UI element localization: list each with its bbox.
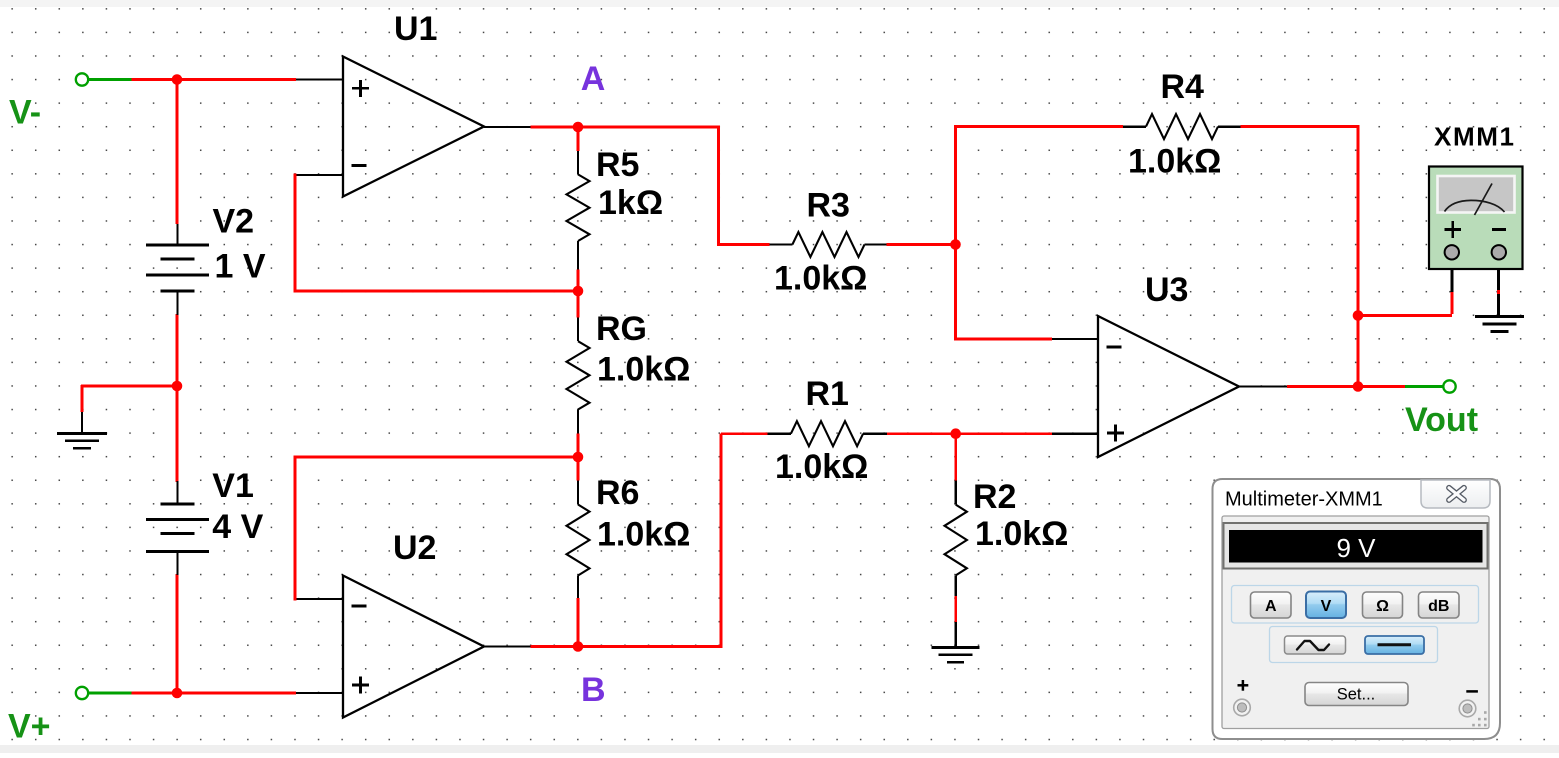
svg-text:A: A	[581, 60, 606, 98]
dialog display bezel	[1224, 523, 1488, 569]
junction V- / V2	[172, 74, 183, 85]
button AC	[1285, 636, 1346, 654]
U1 pin + stub	[296, 78, 343, 80]
svg-text:B: B	[581, 671, 606, 709]
svg-text:V-: V-	[9, 94, 41, 132]
svg-text:1.0kΩ: 1.0kΩ	[597, 516, 690, 554]
wire V- down to V2	[176, 80, 179, 225]
dialog resize grip	[1472, 711, 1486, 726]
svg-text:U1: U1	[394, 10, 437, 48]
resistor R3	[769, 232, 886, 257]
wire feedback to RG/R6 node	[295, 456, 579, 459]
dialog inner panel	[1222, 516, 1489, 729]
U2 pin - stub	[295, 598, 343, 600]
wire node to RG	[577, 290, 580, 318]
svg-text:V+: V+	[8, 708, 51, 746]
wire R4 left vertical	[954, 125, 957, 340]
wire R2 to ground	[954, 596, 957, 622]
svg-text:U3: U3	[1145, 271, 1188, 309]
junction node A	[573, 122, 584, 133]
button Set	[1305, 683, 1408, 706]
resistor R6	[567, 505, 590, 576]
wire V+ green segment	[89, 692, 132, 695]
wire to R4 left	[956, 125, 1124, 128]
ground left	[57, 434, 107, 449]
wire Vout green segment	[1405, 385, 1443, 388]
wire R5 to node	[577, 270, 580, 293]
dialog minus terminal	[1459, 700, 1476, 717]
junction RG/R6	[573, 452, 584, 463]
wire A to R5	[577, 126, 580, 151]
ground XMM1	[1475, 317, 1524, 332]
resistor R2	[945, 505, 967, 576]
svg-text:1.0kΩ: 1.0kΩ	[597, 351, 690, 389]
svg-text:9 V: 9 V	[1336, 533, 1376, 563]
svg-text:1.0kΩ: 1.0kΩ	[774, 260, 867, 298]
svg-text:Multimeter-XMM1: Multimeter-XMM1	[1225, 489, 1383, 511]
svg-text:R5: R5	[596, 146, 639, 184]
wire V- to U1 noninverting	[132, 78, 297, 81]
ground stub	[81, 412, 83, 432]
wire to R1 left	[721, 432, 768, 435]
wire to R3 left	[719, 243, 770, 246]
svg-text:Vout: Vout	[1405, 401, 1478, 439]
svg-text:V: V	[1321, 598, 1332, 615]
button Ohm	[1363, 592, 1403, 618]
wire U2 out to node B	[531, 645, 580, 648]
svg-text:R2: R2	[973, 478, 1016, 516]
dialog plus terminal label	[1238, 680, 1249, 691]
wire U1 out to node A	[531, 126, 580, 129]
svg-text:U2: U2	[393, 529, 436, 567]
op-amp U1	[343, 57, 484, 197]
dialog close button	[1421, 480, 1490, 508]
U3 output stub	[1239, 385, 1287, 387]
XMM1 minus probe red sliver	[1497, 290, 1500, 294]
junction node B	[573, 641, 584, 652]
wire R1 to node	[887, 432, 957, 435]
wire U3 out to node	[1287, 385, 1358, 388]
wire down to R3	[717, 126, 720, 246]
button DC selected	[1365, 636, 1424, 654]
junction R5/RG	[573, 286, 584, 297]
terminal V+	[76, 687, 88, 699]
svg-text:R1: R1	[806, 375, 849, 413]
R2 pin 1 stub	[955, 480, 957, 504]
wire U2 inverting feedback vertical	[294, 456, 297, 601]
U1 pin - stub	[295, 174, 343, 176]
U3 pin - stub	[1052, 338, 1098, 340]
terminal V-	[76, 73, 88, 85]
wire feedback to R5/RG node	[295, 290, 579, 293]
svg-text:Ω: Ω	[1376, 598, 1389, 615]
multimeter XMM1 icon	[1429, 167, 1523, 270]
svg-text:R6: R6	[596, 474, 639, 512]
button dB	[1419, 592, 1460, 618]
svg-text:A: A	[1265, 598, 1277, 615]
dialog group box waveform	[1270, 627, 1438, 663]
R2 pin 2 stub	[955, 575, 957, 596]
wire node A right	[578, 126, 720, 129]
XMM1 minus to ground	[1497, 294, 1500, 316]
wire node to U3 noninverting	[956, 432, 1052, 435]
wire down to ground	[81, 385, 84, 412]
terminal Vout	[1443, 380, 1455, 392]
wire R4 right	[1241, 125, 1360, 128]
ground stub R2	[955, 622, 957, 646]
wire RG to node	[577, 433, 580, 458]
dialog minus terminal label	[1466, 690, 1478, 693]
wire V- green segment	[89, 78, 132, 81]
svg-text:Set...: Set...	[1337, 686, 1376, 704]
wire V1 minus to V+ net	[176, 574, 179, 694]
wire R4 down to output node	[1357, 125, 1360, 388]
R5 pin 2 stub	[577, 241, 579, 270]
battery V1	[146, 481, 209, 575]
svg-text:1 V: 1 V	[215, 248, 266, 286]
svg-text:1.0kΩ: 1.0kΩ	[775, 448, 868, 486]
svg-text:V2: V2	[213, 203, 255, 241]
RG pin 1 stub	[577, 318, 579, 342]
U2 pin + stub	[296, 692, 343, 694]
svg-text:dB: dB	[1428, 598, 1449, 615]
RG pin 2 stub	[577, 410, 579, 434]
wire node down to R2	[954, 432, 957, 480]
svg-text:R4: R4	[1161, 68, 1205, 106]
U1 output stub	[484, 126, 531, 128]
resistor RG	[567, 341, 590, 409]
wire node to Vout	[1358, 385, 1405, 388]
wire V2 minus to mid node	[176, 314, 179, 387]
U2 output stub	[484, 645, 531, 647]
wire up to R1	[720, 434, 723, 648]
R6 pin 2 stub	[577, 576, 579, 599]
svg-text:1.0kΩ: 1.0kΩ	[1128, 142, 1221, 180]
junction XMM1 tap	[1353, 310, 1364, 321]
multimeter XMM1 dialog window	[1213, 479, 1501, 739]
dialog plus terminal	[1234, 699, 1251, 716]
svg-text:4 V: 4 V	[212, 508, 263, 546]
button A	[1251, 592, 1292, 618]
wire node B right	[578, 645, 722, 648]
wire U1 inverting feedback vertical	[294, 174, 297, 293]
svg-text:XMM1: XMM1	[1434, 122, 1516, 152]
svg-text:1.0kΩ: 1.0kΩ	[975, 515, 1068, 553]
svg-text:1kΩ: 1kΩ	[598, 184, 663, 222]
ground under R2	[932, 648, 980, 663]
battery V2	[146, 224, 209, 315]
wire R3 to node	[887, 243, 957, 246]
op-amp U3	[1098, 316, 1239, 457]
wire mid node to V1 plus	[176, 385, 179, 482]
junction output	[1353, 381, 1364, 392]
resistor R4	[1123, 114, 1241, 139]
junction V+ / V1	[172, 688, 183, 699]
svg-text:V1: V1	[212, 467, 254, 505]
wire V+ to U2 noninverting	[132, 692, 297, 695]
resistor R1	[768, 421, 888, 446]
junction mid supply	[172, 381, 183, 392]
resistor R5	[567, 174, 590, 241]
button V selected	[1306, 592, 1346, 619]
wire R6 to node B	[577, 598, 580, 648]
wire to XMM1 plus probe	[1358, 314, 1452, 317]
XMM1 minus probe stub	[1497, 261, 1500, 290]
wire node to U3 inverting	[956, 338, 1053, 341]
junction R3/U3 inverting	[950, 239, 961, 250]
XMM1 plus probe stub	[1451, 261, 1454, 292]
wire node to R6	[577, 456, 580, 481]
dialog group box modes	[1232, 586, 1479, 624]
wire mid node to ground branch	[81, 385, 178, 388]
R6 pin 1 stub	[577, 481, 579, 505]
R5 pin 1 stub	[577, 151, 579, 174]
svg-text:R3: R3	[807, 187, 850, 225]
junction R1/R2/U3 noninverting	[950, 428, 961, 439]
svg-text:RG: RG	[596, 310, 647, 348]
U3 pin + stub	[1052, 433, 1098, 435]
op-amp U2	[343, 576, 484, 718]
wire XMM1 plus vertical red	[1451, 292, 1454, 314]
